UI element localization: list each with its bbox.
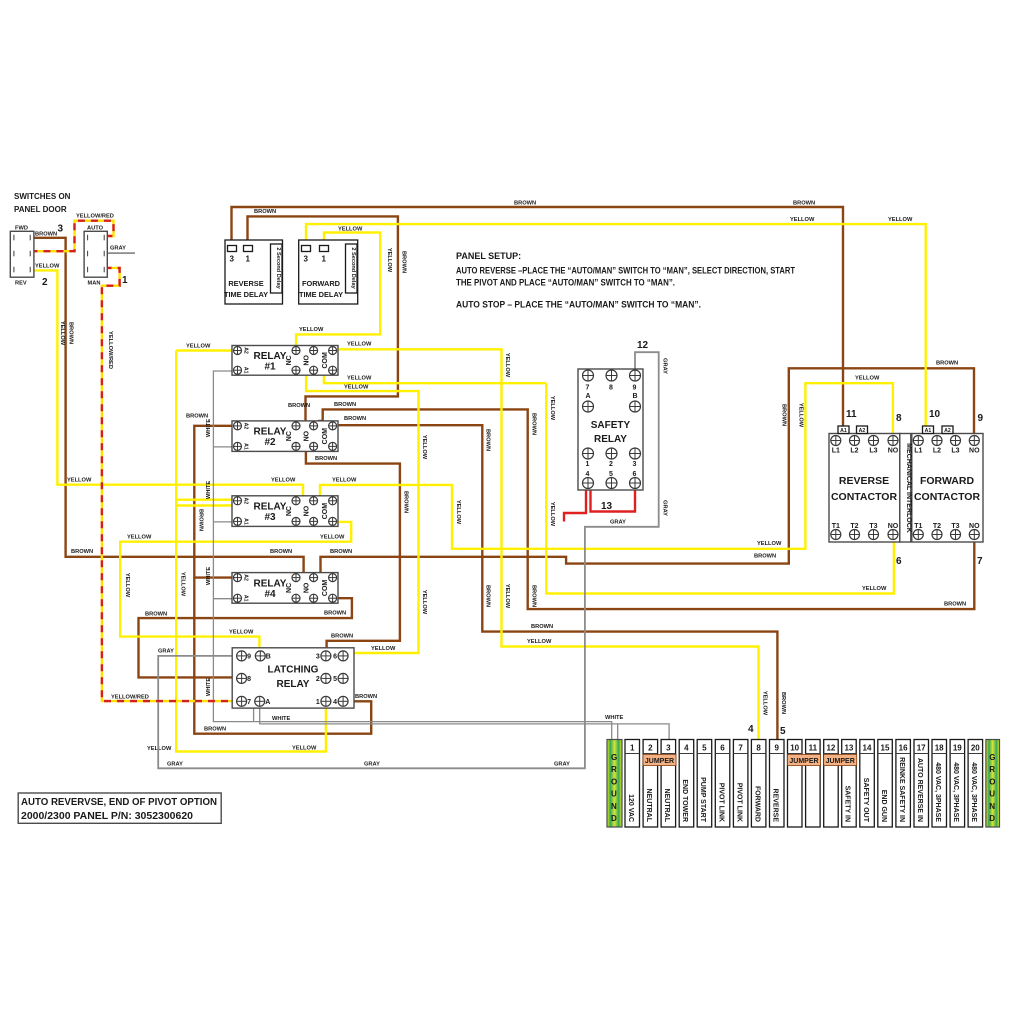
terminal 12 divider bbox=[824, 753, 839, 755]
terminal 5 box bbox=[697, 740, 712, 828]
svg-text:REV: REV bbox=[15, 281, 27, 287]
svg-text:YELLOW: YELLOW bbox=[332, 478, 357, 484]
safety relay terminal B bbox=[630, 401, 641, 412]
svg-text:N: N bbox=[611, 802, 617, 811]
svg-text:YELLOW: YELLOW bbox=[127, 535, 152, 541]
wire brown: relay #2 A2 / relay #4 A2 bus down to latching relay terminal 4 bbox=[194, 426, 371, 734]
terminal 19 box bbox=[950, 740, 965, 828]
reverse contactor terminal T3 bottom bbox=[869, 530, 879, 540]
latching relay terminal 1 bbox=[321, 696, 331, 706]
svg-text:YELLOW/RED: YELLOW/RED bbox=[107, 331, 113, 369]
wire yellow/red dashed: AUTO/MAN switch (node 1) down to latching relay terminal 7 bbox=[102, 268, 239, 701]
relay #4 NC top terminal bbox=[292, 574, 300, 582]
switch S2 left contact 2 bbox=[87, 251, 89, 256]
svg-text:YELLOW: YELLOW bbox=[344, 384, 369, 390]
safety relay terminal 1 bbox=[583, 448, 594, 459]
svg-text:D: D bbox=[611, 814, 617, 823]
svg-text:14: 14 bbox=[863, 744, 872, 753]
svg-text:BROWN: BROWN bbox=[198, 509, 204, 531]
svg-text:BROWN: BROWN bbox=[485, 429, 491, 451]
svg-text:A2: A2 bbox=[859, 428, 866, 434]
switch S2 left contact 3 bbox=[87, 267, 89, 273]
svg-text:L1: L1 bbox=[832, 448, 840, 455]
wire gray: safety relay terminal 9 (node 12) loop to latching relay terminal 9 bbox=[158, 352, 659, 768]
terminal 3 box bbox=[661, 740, 676, 828]
svg-text:2: 2 bbox=[316, 676, 320, 683]
svg-text:YELLOW: YELLOW bbox=[186, 344, 211, 350]
relay #1 COM top terminal bbox=[329, 347, 337, 355]
svg-text:BROWN: BROWN bbox=[355, 694, 377, 700]
terminal 15 box bbox=[878, 740, 893, 828]
footer title box bbox=[18, 793, 221, 823]
svg-text:WHITE: WHITE bbox=[206, 567, 212, 586]
svg-text:BROWN: BROWN bbox=[35, 231, 57, 237]
svg-text:RELAY: RELAY bbox=[254, 578, 287, 589]
svg-text:#3: #3 bbox=[264, 512, 276, 523]
svg-text:5: 5 bbox=[780, 726, 786, 737]
svg-text:1: 1 bbox=[246, 255, 251, 264]
svg-text:480 VAC, 3PHASE: 480 VAC, 3PHASE bbox=[970, 762, 977, 822]
svg-text:BROWN: BROWN bbox=[793, 201, 815, 207]
wire brown: stub from A2 bus to relay #4 A2 bbox=[194, 576, 233, 578]
svg-text:BROWN: BROWN bbox=[270, 549, 292, 555]
relay #4 terminal A2 bbox=[234, 574, 242, 582]
svg-text:10: 10 bbox=[929, 409, 941, 420]
svg-text:FORWARD: FORWARD bbox=[302, 279, 341, 288]
svg-text:YELLOW: YELLOW bbox=[386, 248, 392, 273]
svg-text:FWD: FWD bbox=[15, 226, 28, 232]
svg-text:PIVOT LINK: PIVOT LINK bbox=[735, 783, 742, 822]
svg-text:17: 17 bbox=[917, 744, 926, 753]
svg-text:FORWARD: FORWARD bbox=[920, 475, 974, 487]
svg-text:18: 18 bbox=[935, 744, 944, 753]
latching relay terminal 2 bbox=[321, 673, 331, 683]
svg-text:T2: T2 bbox=[850, 523, 858, 530]
svg-text:A1: A1 bbox=[925, 428, 932, 434]
svg-text:PANEL DOOR: PANEL DOOR bbox=[14, 205, 67, 214]
switch S1 left contact 3 bbox=[13, 267, 15, 273]
terminal 12 box bbox=[824, 740, 839, 828]
terminal 15 divider bbox=[878, 753, 893, 755]
svg-text:GRAY: GRAY bbox=[554, 762, 570, 768]
svg-text:A1: A1 bbox=[243, 443, 249, 450]
safety relay terminal 9 bbox=[630, 370, 641, 381]
terminal 20 divider bbox=[968, 753, 983, 755]
latching relay body bbox=[232, 648, 354, 708]
svg-text:END GUN: END GUN bbox=[880, 790, 887, 822]
svg-text:4: 4 bbox=[684, 744, 689, 753]
svg-text:NEUTRAL: NEUTRAL bbox=[645, 789, 652, 823]
svg-text:YELLOW: YELLOW bbox=[371, 646, 396, 652]
terminal 16 divider bbox=[896, 753, 911, 755]
svg-text:R: R bbox=[989, 765, 995, 774]
svg-text:REVERSE: REVERSE bbox=[228, 279, 263, 288]
svg-text:END TOWER: END TOWER bbox=[681, 779, 688, 822]
terminal 19 divider bbox=[950, 753, 965, 755]
svg-text:BROWN: BROWN bbox=[403, 491, 409, 513]
svg-text:GRAY: GRAY bbox=[610, 520, 626, 526]
wire yellow: forward time delay pin 1 to relay #1 NC top bbox=[296, 233, 380, 347]
switch S2 right contact 1 bbox=[103, 235, 105, 241]
svg-text:11: 11 bbox=[809, 744, 818, 753]
svg-text:TIME DELAY: TIME DELAY bbox=[224, 290, 268, 299]
svg-text:BROWN: BROWN bbox=[288, 403, 310, 409]
svg-text:6: 6 bbox=[720, 744, 725, 753]
svg-text:7: 7 bbox=[977, 556, 983, 567]
svg-text:9: 9 bbox=[633, 385, 637, 392]
svg-text:BROWN: BROWN bbox=[780, 692, 786, 714]
switch S1 right contact 2 bbox=[29, 251, 31, 256]
svg-text:B: B bbox=[266, 654, 271, 661]
svg-text:YELLOW/RED: YELLOW/RED bbox=[76, 214, 114, 220]
svg-text:R: R bbox=[611, 765, 617, 774]
svg-text:U: U bbox=[611, 790, 617, 799]
relay #4 body bbox=[232, 573, 338, 604]
terminal 16 box bbox=[896, 740, 911, 828]
svg-text:YELLOW: YELLOW bbox=[229, 630, 254, 636]
forward contactor body bbox=[912, 434, 983, 543]
svg-text:AUTO REVERVSE, END OF PIVOT OP: AUTO REVERVSE, END OF PIVOT OPTION bbox=[21, 797, 217, 808]
svg-text:13: 13 bbox=[601, 501, 613, 512]
wire yellow: forward time delay pin 3 across top to forward contactor A1 (node 10) bbox=[306, 224, 926, 433]
svg-text:COM: COM bbox=[322, 580, 329, 597]
svg-text:13: 13 bbox=[844, 744, 853, 753]
svg-text:D: D bbox=[989, 814, 995, 823]
svg-text:A1: A1 bbox=[243, 518, 249, 525]
svg-text:1: 1 bbox=[322, 255, 327, 264]
svg-text:SWITCHES ON: SWITCHES ON bbox=[14, 192, 71, 201]
svg-text:NO: NO bbox=[304, 355, 311, 366]
svg-text:BROWN: BROWN bbox=[485, 585, 491, 607]
relay #1 COM bottom terminal bbox=[329, 366, 337, 374]
terminal 13 divider bbox=[842, 753, 857, 755]
relay #2 NC bottom terminal bbox=[292, 442, 300, 450]
forward contactor terminal NO bottom bbox=[969, 530, 979, 540]
wire yellow: branch to relay #1 A2 bbox=[176, 349, 233, 351]
svg-text:#4: #4 bbox=[264, 589, 276, 600]
terminal 1 divider bbox=[625, 753, 640, 755]
svg-text:2: 2 bbox=[648, 744, 653, 753]
relay #1 terminal A2 bbox=[234, 347, 242, 355]
switch S1 right contact 1 bbox=[29, 235, 31, 241]
relay #2 NC top terminal bbox=[292, 422, 300, 430]
terminal 14 box bbox=[860, 740, 875, 828]
svg-text:L1: L1 bbox=[914, 448, 922, 455]
svg-text:AUTO: AUTO bbox=[87, 226, 104, 232]
jumper terminals 2-3 bbox=[643, 755, 676, 766]
svg-text:BROWN: BROWN bbox=[204, 727, 226, 733]
wire yellow: branch from y383 down to reverse contactor NO bottom (node 6) bbox=[546, 383, 894, 593]
svg-text:9: 9 bbox=[774, 744, 779, 753]
svg-text:NO: NO bbox=[888, 448, 899, 455]
safety relay body bbox=[578, 369, 643, 490]
timer forward pin 1 terminal bbox=[320, 246, 329, 252]
reverse contactor A1 box bbox=[838, 426, 849, 434]
svg-text:BROWN: BROWN bbox=[531, 413, 537, 435]
latching relay terminal B bbox=[255, 651, 265, 661]
svg-text:15: 15 bbox=[881, 744, 890, 753]
svg-text:GRAY: GRAY bbox=[662, 500, 668, 516]
latching relay terminal 8 bbox=[237, 673, 247, 683]
svg-text:BROWN: BROWN bbox=[344, 416, 366, 422]
svg-text:YELLOW: YELLOW bbox=[527, 639, 552, 645]
timer REVERSE TIME DELAY body bbox=[225, 240, 283, 304]
svg-text:A: A bbox=[586, 393, 591, 400]
jumper terminals 10-11 bbox=[788, 755, 821, 766]
svg-text:BROWN: BROWN bbox=[936, 361, 958, 367]
svg-text:NC: NC bbox=[286, 583, 293, 593]
wire yellow: tee from REV line down to latching relay terminal 1 bbox=[176, 485, 326, 752]
svg-text:NC: NC bbox=[286, 431, 293, 441]
svg-text:BROWN: BROWN bbox=[514, 201, 536, 207]
latching relay terminal A bbox=[255, 696, 265, 706]
relay #2 COM top terminal bbox=[329, 422, 337, 430]
relay #1 terminal A1 bbox=[234, 366, 242, 374]
svg-text:MAN: MAN bbox=[88, 281, 101, 287]
svg-text:11: 11 bbox=[846, 409, 857, 420]
terminal 13 box bbox=[842, 740, 857, 828]
mechanical interlock strip bbox=[900, 434, 911, 543]
svg-text:480 VAC, 3PHASE: 480 VAC, 3PHASE bbox=[934, 762, 941, 822]
svg-text:4: 4 bbox=[586, 471, 590, 478]
svg-text:3: 3 bbox=[316, 654, 320, 661]
svg-text:2 Second Delay: 2 Second Delay bbox=[275, 247, 281, 289]
svg-text:7: 7 bbox=[738, 744, 743, 753]
terminal 4 divider bbox=[679, 753, 694, 755]
svg-text:#2: #2 bbox=[264, 437, 276, 448]
svg-text:12: 12 bbox=[826, 744, 835, 753]
svg-text:G: G bbox=[611, 753, 617, 762]
svg-text:6: 6 bbox=[333, 654, 337, 661]
svg-text:BROWN: BROWN bbox=[324, 611, 346, 617]
svg-text:480 VAC, 3PHASE: 480 VAC, 3PHASE bbox=[952, 762, 959, 822]
reverse contactor terminal L3 top bbox=[869, 436, 879, 446]
svg-text:CONTACTOR: CONTACTOR bbox=[831, 491, 898, 503]
svg-text:YELLOW: YELLOW bbox=[862, 586, 887, 592]
svg-text:YELLOW: YELLOW bbox=[124, 573, 130, 598]
relay #4 NO top terminal bbox=[310, 574, 318, 582]
svg-text:BROWN: BROWN bbox=[754, 554, 776, 560]
svg-text:8: 8 bbox=[609, 385, 613, 392]
svg-text:6: 6 bbox=[633, 471, 637, 478]
wire white: stub to relay #2 A1 bbox=[213, 446, 233, 448]
svg-text:COM: COM bbox=[322, 428, 329, 445]
svg-text:BROWN: BROWN bbox=[145, 611, 167, 617]
timer reverse pin 3 terminal bbox=[228, 246, 237, 252]
svg-text:RELAY: RELAY bbox=[254, 427, 287, 438]
jumper terminals 12-13 bbox=[824, 755, 857, 766]
svg-text:THE PIVOT AND PLACE “AUTO/MAN”: THE PIVOT AND PLACE “AUTO/MAN” SWITCH TO… bbox=[456, 278, 675, 288]
forward contactor A2 box bbox=[942, 426, 953, 434]
svg-text:REVERSE: REVERSE bbox=[839, 475, 889, 487]
wire yellow: stub to relay #3 A2 (lower) bbox=[176, 504, 232, 506]
relay #3 COM bottom terminal bbox=[329, 517, 337, 525]
forward contactor terminal T2 bottom bbox=[932, 530, 942, 540]
svg-text:GRAY: GRAY bbox=[662, 358, 668, 374]
latching relay terminal 3 bbox=[321, 651, 331, 661]
safety relay terminal 2 bbox=[606, 448, 617, 459]
svg-text:A2: A2 bbox=[944, 428, 951, 434]
terminal 2 divider bbox=[643, 753, 658, 755]
svg-text:T3: T3 bbox=[869, 523, 877, 530]
wire brown: relay #2 NO top to forward contactor NO bottom (node 7) bbox=[318, 409, 974, 609]
svg-text:8: 8 bbox=[247, 676, 251, 683]
svg-text:10: 10 bbox=[790, 744, 799, 753]
svg-text:NO: NO bbox=[304, 505, 311, 516]
relay #3 terminal A1 bbox=[234, 517, 242, 525]
svg-text:YELLOW: YELLOW bbox=[888, 217, 913, 223]
wire brown: relay #4 NO top to forward contactor NO top (node 9) bbox=[321, 368, 975, 573]
wire yellow/red dashed: FWD/REV switch middle to AUTO/MAN switch top bbox=[30, 221, 113, 252]
terminal 18 divider bbox=[932, 753, 947, 755]
terminal 18 box bbox=[932, 740, 947, 828]
relay #2 COM bottom terminal bbox=[329, 442, 337, 450]
wire yellow: stub to relay #3 A2 (upper) bbox=[176, 499, 232, 501]
svg-text:GRAY: GRAY bbox=[167, 762, 183, 768]
svg-text:A1: A1 bbox=[243, 595, 249, 602]
svg-text:BROWN: BROWN bbox=[71, 549, 93, 555]
svg-text:YELLOW: YELLOW bbox=[320, 535, 345, 541]
terminal 4 box bbox=[679, 740, 694, 828]
wire brown: relay #4 COM bottom to latching relay terminal 8 bbox=[139, 598, 352, 677]
svg-text:A1: A1 bbox=[840, 428, 847, 434]
wire red: jumper 13 between safety relay terminals 4 and 6 bbox=[591, 491, 636, 512]
svg-text:B: B bbox=[633, 393, 638, 400]
svg-text:SAFETY IN: SAFETY IN bbox=[844, 786, 851, 822]
svg-text:8: 8 bbox=[896, 413, 902, 424]
relay #2 NO top terminal bbox=[310, 422, 318, 430]
svg-text:BROWN: BROWN bbox=[781, 404, 787, 426]
relay #4 NO bottom terminal bbox=[310, 594, 318, 602]
terminal 6 box bbox=[715, 740, 730, 828]
terminal 2 box bbox=[643, 740, 658, 828]
svg-text:2: 2 bbox=[609, 461, 613, 468]
relay #1 NO bottom terminal bbox=[310, 366, 318, 374]
svg-text:NC: NC bbox=[286, 506, 293, 516]
svg-text:GRAY: GRAY bbox=[364, 762, 380, 768]
wire yellow: relay #1 NC bottom to latching relay terminal 6 bbox=[300, 371, 419, 653]
relay #1 NC top terminal bbox=[292, 347, 300, 355]
relay #4 NC bottom terminal bbox=[292, 594, 300, 602]
svg-text:FORWARD: FORWARD bbox=[753, 786, 760, 822]
svg-text:WHITE: WHITE bbox=[605, 715, 624, 721]
latching relay terminal 7 bbox=[237, 696, 247, 706]
svg-text:O: O bbox=[611, 777, 617, 786]
svg-text:5: 5 bbox=[333, 676, 337, 683]
reverse contactor body bbox=[829, 434, 900, 543]
svg-text:7: 7 bbox=[586, 385, 590, 392]
svg-text:YELLOW: YELLOW bbox=[347, 341, 372, 347]
svg-text:YELLOW: YELLOW bbox=[549, 396, 555, 421]
svg-text:REVERSE: REVERSE bbox=[772, 789, 779, 823]
svg-text:2: 2 bbox=[42, 277, 48, 288]
wire yellow: relay #3 COM bottom to latching relay terminal B bbox=[120, 522, 351, 652]
svg-text:19: 19 bbox=[953, 744, 962, 753]
svg-text:4: 4 bbox=[748, 724, 754, 735]
latching relay terminal 4 bbox=[338, 696, 348, 706]
svg-text:3: 3 bbox=[666, 744, 671, 753]
forward contactor terminal T1 bottom bbox=[913, 530, 923, 540]
relay #3 NO top terminal bbox=[310, 497, 318, 505]
svg-text:O: O bbox=[989, 777, 995, 786]
svg-text:BROWN: BROWN bbox=[401, 251, 407, 273]
svg-text:NO: NO bbox=[969, 523, 980, 530]
wire brown: FWD/REV switch (node 3) down left side to relay #4 NC top bbox=[30, 238, 303, 574]
wire yellow: vertical x176 from relay1 A2 branch to REV line bbox=[175, 351, 177, 485]
reverse contactor terminal NO bottom bbox=[888, 530, 898, 540]
terminal 7 divider bbox=[733, 753, 748, 755]
wire white: stub to relay #4 A1 bbox=[213, 598, 233, 600]
terminal 5 divider bbox=[697, 753, 712, 755]
svg-text:RELAY: RELAY bbox=[254, 502, 287, 513]
svg-text:3: 3 bbox=[58, 224, 64, 235]
svg-text:A2: A2 bbox=[243, 423, 249, 430]
timer forward 2-second-delay strip bbox=[346, 244, 358, 293]
svg-text:16: 16 bbox=[899, 744, 908, 753]
forward contactor terminal NO top bbox=[969, 436, 979, 446]
safety relay terminal 4 bbox=[583, 478, 594, 489]
svg-text:YELLOW: YELLOW bbox=[762, 691, 768, 716]
svg-text:JUMPER: JUMPER bbox=[826, 758, 855, 765]
svg-text:CONTACTOR: CONTACTOR bbox=[914, 491, 981, 503]
svg-text:1: 1 bbox=[316, 699, 320, 706]
svg-text:YELLOW: YELLOW bbox=[421, 590, 427, 615]
wire yellow: relay #3 NO top via y549 run up to reverse contactor NO top (node 8) bbox=[320, 383, 893, 549]
svg-text:BROWN: BROWN bbox=[330, 549, 352, 555]
safety relay terminal A bbox=[583, 401, 594, 412]
switch S2 left contact 1 bbox=[87, 235, 89, 241]
svg-text:TIME DELAY: TIME DELAY bbox=[299, 290, 343, 299]
svg-text:NC: NC bbox=[286, 355, 293, 365]
svg-text:YELLOW: YELLOW bbox=[299, 327, 324, 333]
svg-text:1: 1 bbox=[630, 744, 635, 753]
svg-text:BROWN: BROWN bbox=[531, 585, 537, 607]
safety relay terminal 7 bbox=[583, 370, 594, 381]
terminal 17 divider bbox=[914, 753, 929, 755]
svg-text:BROWN: BROWN bbox=[68, 322, 74, 344]
forward contactor terminal L2 top bbox=[932, 436, 942, 446]
svg-text:6: 6 bbox=[896, 556, 902, 567]
reverse contactor terminal L1 top bbox=[831, 436, 841, 446]
relay #2 terminal A2 bbox=[234, 422, 242, 430]
relay #4 terminal A1 bbox=[234, 594, 242, 602]
timer reverse pin 1 terminal bbox=[244, 246, 253, 252]
svg-text:BROWN: BROWN bbox=[315, 456, 337, 462]
svg-text:YELLOW: YELLOW bbox=[35, 264, 60, 270]
safety relay terminal 6 bbox=[630, 478, 641, 489]
svg-text:A2: A2 bbox=[243, 497, 249, 504]
wire brown: reverse time delay pin 3 up, across top, down to reverse contactor A1 (node 11) bbox=[232, 207, 844, 433]
svg-text:WHITE: WHITE bbox=[206, 678, 212, 697]
svg-text:RELAY: RELAY bbox=[594, 434, 627, 445]
wire white: relay A1 bus down to GROUND bar bbox=[213, 371, 611, 739]
svg-text:NO: NO bbox=[888, 523, 899, 530]
latching relay terminal 9 bbox=[237, 651, 247, 661]
relay #3 body bbox=[232, 496, 338, 527]
svg-text:L3: L3 bbox=[951, 448, 959, 455]
svg-text:GRAY: GRAY bbox=[158, 649, 174, 655]
wire white: stub to relay #3 A1 bbox=[213, 521, 233, 523]
switch S1 left contact 1 bbox=[13, 235, 15, 241]
svg-text:WHITE: WHITE bbox=[206, 481, 212, 500]
wire red: stub from safety relay terminal 4 bbox=[564, 491, 586, 522]
terminal 14 divider bbox=[860, 753, 875, 755]
reverse contactor terminal T2 bottom bbox=[850, 530, 860, 540]
switch S2 right contact 3 bbox=[103, 267, 105, 273]
svg-text:SAFETY OUT: SAFETY OUT bbox=[862, 778, 869, 823]
svg-text:T2: T2 bbox=[933, 523, 941, 530]
svg-text:N: N bbox=[989, 802, 995, 811]
